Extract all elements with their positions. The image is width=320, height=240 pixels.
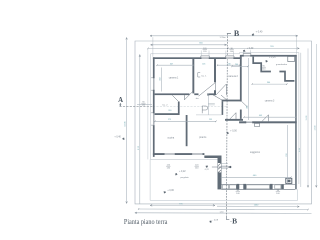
step line entry south [196,114,222,116]
dim line entry width [232,65,248,67]
svg-text:+ 0,00: + 0,00 [230,131,237,133]
door swing camera2 a [216,84,226,95]
hatch line 1 [218,163,221,166]
svg-text:ba. 2: ba. 2 [163,104,169,106]
wall corridor west 2 [194,93,198,95]
window gap bottom 1 [164,153,175,156]
portico window label 2 [276,190,281,195]
wall pranzo right stub [222,101,224,115]
section B bottom stub [226,217,228,220]
door swing camera3 a [262,115,269,122]
svg-text:+ 0,25: + 0,25 [269,57,276,59]
entry step 3 [222,168,229,170]
portico opening box 1 [230,185,237,189]
window gap top wall 3 [244,55,251,57]
section line B vertical dashed [226,34,229,217]
wall pranzo top [222,100,240,102]
svg-text:+ 0,30: + 0,30 [247,48,254,50]
dim line camera3 height [248,58,250,120]
dim line top east [148,47,299,49]
window glazing line 3 [244,54,251,56]
dim line soggiorno height [287,125,289,184]
svg-text:Pianta piano terra: Pianta piano terra [124,218,168,226]
extension line win3 right [250,50,252,54]
dim line camera3 width [244,116,296,118]
fixture symbol P [202,106,207,113]
dim line bottom 1460 [217,205,299,207]
window sill left 2b [152,124,153,127]
label guardaroba window [262,66,267,71]
window gap top wall 1 [201,57,209,59]
wall camera1/ba1 [192,59,194,93]
terrace outline [150,159,298,200]
dim line camera1 width [157,64,194,66]
wall ba1/camera2 lower [214,90,216,95]
lot boundary rectangle [135,41,312,204]
label above top window 1 [203,48,208,53]
wall camera3 bottom / soggiorno top [239,121,297,123]
door swing camera1 a [184,91,193,100]
wall corridor west 1 [155,93,190,95]
pier below soggiorno wall [255,123,260,126]
door swing entry [242,102,248,108]
section A stub [119,103,121,106]
extension line win2 right [233,51,235,57]
terrace edge line bottom west [151,159,218,161]
portico corner pier inner box [287,179,291,182]
svg-text:B: B [232,216,237,225]
section line A horizontal dashed [120,105,154,107]
wall corridor west 3 [207,93,216,95]
wall camera2 bottom [225,119,243,121]
svg-text:240: 240 [168,110,171,112]
dim line left window [137,103,152,105]
dim line cucina pranzo [155,120,216,122]
dim line bottom long [139,208,308,211]
elevation cross +0,40 top [251,33,254,36]
dim line right vertical 2 [315,44,317,187]
svg-text:pergolato: pergolato [180,176,189,179]
window gap left wall 1 [152,78,155,90]
window gap top wall 2 [226,57,234,59]
elevation cross +0,06 low [163,191,166,194]
extension line west corner [152,37,154,57]
dim line portico [221,176,291,178]
svg-text:1.15m: 1.15m [220,37,226,39]
svg-text:camera 3: camera 3 [265,100,275,103]
dim line right vertical 1 [307,48,309,187]
wall entry column [218,156,222,190]
svg-text:+ 0,40: + 0,40 [256,31,263,34]
elevation cross -0,08 bottom [209,220,212,223]
entry step line a [209,103,215,105]
svg-text:A: A [118,97,123,104]
window sill left 1a [152,76,153,79]
elevation cross +0,00 [226,131,229,134]
dim line guardaroba [252,83,287,85]
extension line win2 left [225,51,227,57]
flue box top right [288,57,295,62]
hatch line 2 [218,167,221,170]
portico pier 3 [270,184,273,190]
extension line win3 left [243,50,245,54]
window glazing line 2 [226,57,234,59]
window sill box top 2 [226,56,235,57]
svg-text:soggiorno: soggiorno [250,151,261,154]
wall top east [241,55,297,57]
door swing ba2 [172,95,178,101]
svg-text:+ 0,40: + 0,40 [114,136,121,138]
hatch line 3 [218,170,221,173]
door leaf camera3 [268,115,270,122]
elevation cross entry [205,165,208,168]
door swing camera2 b [230,113,236,119]
portico window label 1 [236,190,241,195]
wall camera2 right / entry left lower [240,110,242,119]
door leaf camera1 [183,95,185,100]
section A arrow [120,104,122,106]
label below bottom window 2 [195,165,200,170]
window glazing soggiorno [246,121,253,123]
wall ba2 right [178,102,180,116]
svg-text:camera 2: camera 2 [228,75,238,78]
wall bottom step [204,153,217,158]
svg-text:pranzo: pranzo [199,136,207,139]
svg-text:106: 106 [202,64,205,66]
wall right [295,55,297,189]
svg-text:13.05: 13.05 [125,121,127,127]
entry step line b [209,104,215,106]
label near B top [229,48,234,53]
svg-text:camera 1: camera 1 [169,77,179,80]
svg-text:B: B [234,29,240,38]
window glazing line 1 [201,57,209,59]
window sill left 1b [152,89,153,92]
svg-text:guardaroba: guardaroba [276,63,288,66]
window gap left wall 2 [152,113,155,126]
svg-text:–: – [230,219,232,223]
window gap bottom 2 [192,153,203,156]
wall cucina/pranzo [186,115,188,146]
section B bottom tick [227,219,230,221]
portico opening box 3 [275,185,281,189]
svg-text:ba. 1: ba. 1 [202,75,208,77]
wall ba1/camera2 upper [214,59,216,82]
extension line win1 right [208,51,210,57]
window sill box top 1 [201,56,210,57]
section B top tick [227,33,231,35]
window gap soggiorno top wall [246,121,253,124]
elevation cross +0,40 left [122,137,125,140]
svg-text:dis.: dis. [196,98,200,100]
door swing pranzo [212,95,222,101]
label below bottom window 1 [166,165,171,170]
wall bottom west [153,153,205,155]
portico pier 4 [281,184,284,189]
portico opening box 2 [246,185,269,189]
entry door direction arrow [212,166,231,168]
fixture C ba1 [198,73,200,77]
elevation cross +0,30 [243,49,246,52]
dim line left outer vertical [126,38,128,204]
wall step top [240,55,242,59]
svg-text:240: 240 [227,63,230,65]
entry step 1 [222,163,229,165]
dim line camera1 height [160,68,162,92]
window sill left 2a [152,111,153,114]
portico parapet outline [222,185,296,190]
svg-text:13.40: 13.40 [314,125,316,131]
wall entry hall stepped [253,57,294,81]
section line A faint continuation [153,105,227,107]
dim line bottom outermost [135,212,312,215]
elevation cross +0,25 [265,60,268,63]
dim line bottom 770 [150,204,215,206]
dim line camera2 width [218,64,240,66]
svg-text:cucina: cucina [167,138,174,140]
eaves outline [151,53,299,184]
entry inner dim [207,93,209,115]
wall ba2 bottom [155,113,180,115]
portico pillar 1 [218,185,222,190]
door swing dis a [221,95,227,100]
door leaf ba1 [214,83,216,91]
svg-text:+ 0,06: + 0,06 [167,190,174,192]
extension line east corner [296,37,298,55]
door leaf camera2 [235,113,237,119]
portico pier 2b [243,184,246,190]
left window label [141,102,146,107]
roof ridge outline [147,48,149,159]
entry column hatch gap [218,163,221,172]
wall top west [153,57,241,59]
portico opening box 0 [223,185,229,189]
window sill box top 3 [243,54,251,55]
svg-text:+ 0,22: + 0,22 [179,171,186,173]
extension line win1 left [200,51,202,57]
wall camera2 right / entry left upper [240,57,242,102]
dim line top overall [150,35,298,37]
wall left [153,57,155,157]
portico corner pier [285,178,292,184]
door swing ba1 a [199,83,216,97]
dim line left inner vertical [139,54,141,204]
dim line top west [151,44,228,46]
elevation cross +0,22 [175,173,178,176]
portico pier 2a [237,184,240,190]
svg-text:- 0,08: - 0,08 [213,219,219,221]
door leaf camera2 a [225,84,227,95]
dim line right vertical 3 [300,53,302,187]
svg-text:410: 410 [160,77,162,80]
entry step 2 [222,165,229,167]
